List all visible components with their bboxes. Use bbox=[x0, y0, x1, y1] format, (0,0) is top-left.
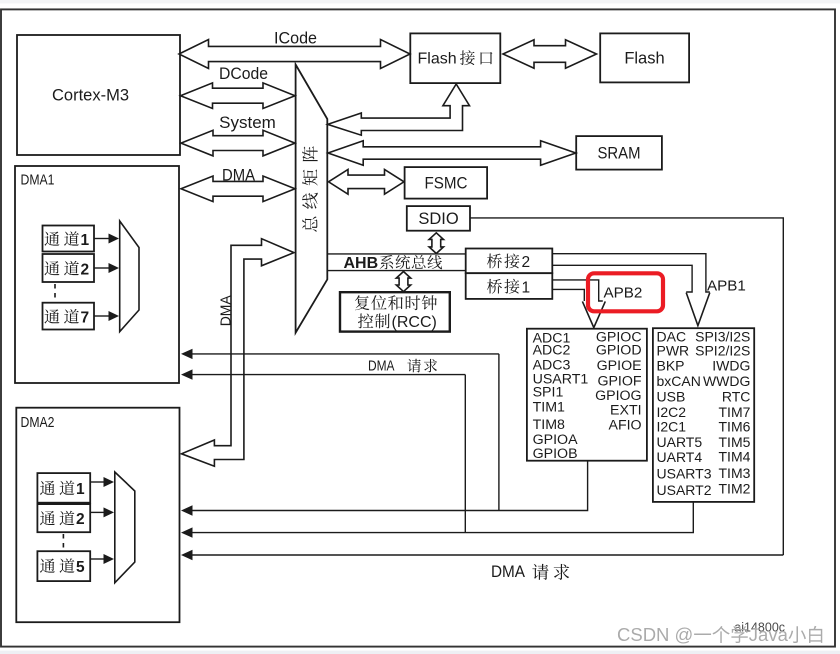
arrow 通道7 to mux (DMA1) bbox=[94, 311, 119, 321]
svg-text:Cortex-M3: Cortex-M3 bbox=[52, 87, 129, 105]
svg-text:DCode: DCode bbox=[219, 64, 268, 83]
svg-text:DMA: DMA bbox=[491, 563, 525, 581]
svg-text:TIM8: TIM8 bbox=[533, 417, 565, 433]
svg-text:DMA: DMA bbox=[218, 295, 235, 326]
DCode bus arrow bbox=[181, 83, 296, 109]
watermark CSDN bbox=[617, 624, 822, 645]
wire SDIO to right rail bbox=[470, 218, 783, 555]
svg-text:GPIOD: GPIOD bbox=[596, 343, 642, 359]
svg-text:FSMC: FSMC bbox=[425, 174, 468, 193]
DMA bus arrow DMA1-matrix bbox=[181, 176, 295, 202]
arrow matrix to FSMC bbox=[329, 169, 405, 194]
svg-text:GPIOE: GPIOE bbox=[597, 358, 642, 374]
svg-text:I2C2: I2C2 bbox=[657, 404, 687, 420]
channel box 通道7 (DMA1) bbox=[43, 303, 95, 330]
svg-text:TIM2: TIM2 bbox=[719, 480, 751, 496]
arrow DMA2 to matrix (vertical elbow, DMA) bbox=[182, 239, 295, 467]
block Flash interface (Flash 接口) bbox=[410, 33, 500, 83]
svg-text:USART2: USART2 bbox=[657, 482, 712, 498]
block APB2 peripherals bbox=[527, 329, 647, 462]
svg-text:DMA: DMA bbox=[368, 358, 395, 375]
arrow Flash interface to Flash bbox=[503, 40, 597, 68]
svg-text:TIM3: TIM3 bbox=[719, 465, 751, 481]
AHB system bus line upper bbox=[327, 253, 465, 255]
arrow matrix to Flash interface (elbow) bbox=[328, 84, 470, 135]
page bottom gray strip bbox=[0, 651, 840, 654]
svg-text:1: 1 bbox=[522, 279, 531, 296]
block Flash bbox=[600, 33, 689, 82]
svg-text:7: 7 bbox=[81, 310, 90, 327]
arrow 通道1 to mux (DMA2) bbox=[90, 477, 114, 487]
svg-text:bxCAN: bxCAN bbox=[657, 373, 701, 389]
channel box 通道1 (DMA1) bbox=[43, 226, 95, 252]
svg-text:BKP: BKP bbox=[657, 358, 685, 374]
svg-text:AFIO: AFIO bbox=[608, 418, 641, 434]
svg-text:DMA: DMA bbox=[222, 167, 255, 185]
svg-text:GPIOG: GPIOG bbox=[595, 388, 642, 404]
wire vertical junction line1 bbox=[498, 354, 500, 511]
wire DMA request to DMA1 line2 bbox=[181, 369, 465, 379]
AHB bus label AHB系统总线 bbox=[344, 255, 443, 272]
block bridge2 桥接2 bbox=[466, 249, 553, 274]
svg-text:GPIOB: GPIOB bbox=[533, 446, 578, 462]
svg-text:Flash: Flash bbox=[418, 51, 457, 68]
svg-text:1: 1 bbox=[76, 481, 85, 498]
DMA1 mux bbox=[120, 221, 139, 332]
svg-text:ADC2: ADC2 bbox=[533, 343, 571, 359]
svg-text:TIM4: TIM4 bbox=[719, 449, 751, 465]
svg-text:Java: Java bbox=[749, 624, 789, 645]
arrow 通道1 to mux (DMA1) bbox=[94, 234, 119, 244]
svg-text:Flash: Flash bbox=[624, 50, 664, 68]
svg-text:PWR: PWR bbox=[657, 342, 690, 358]
arrow 通道2 to mux (DMA2) bbox=[90, 507, 114, 517]
dashed line channels DMA1 bbox=[54, 284, 56, 301]
svg-text:2: 2 bbox=[522, 254, 531, 271]
wire SDIO rail to DMA2 line3 bbox=[181, 550, 783, 560]
wire bridge2 to APB1 (upper) bbox=[552, 254, 710, 292]
svg-text:TIM1: TIM1 bbox=[533, 399, 565, 415]
svg-text:TIM7: TIM7 bbox=[719, 404, 751, 420]
page top gray strip bbox=[0, 0, 840, 3]
arrow SDIO to AHB bus (updown) bbox=[429, 233, 443, 254]
svg-text:ICode: ICode bbox=[274, 29, 317, 48]
svg-text:APB2: APB2 bbox=[604, 285, 643, 302]
wire bridge1 to APB2 (upper) bbox=[552, 280, 603, 301]
DMA vertical label bbox=[218, 295, 235, 326]
channel box 通道5 (DMA2) bbox=[37, 551, 90, 581]
arrow 通道2 to mux (DMA1) bbox=[94, 263, 119, 273]
APB1 arrowhead (open V) bbox=[686, 293, 710, 326]
svg-text:APB1: APB1 bbox=[707, 278, 746, 295]
wire bridge2 to APB1 (lower) bbox=[552, 265, 692, 292]
wire APB2 to DMA2 line1 bbox=[181, 461, 588, 516]
block RCC 复位和时钟控制 bbox=[340, 292, 450, 331]
svg-text:WWDG: WWDG bbox=[703, 373, 750, 389]
arrow AHB bus to RCC (updown) bbox=[396, 272, 410, 292]
svg-text:1: 1 bbox=[81, 232, 90, 249]
svg-text:AHB: AHB bbox=[344, 255, 379, 272]
DMA request label lower bbox=[491, 563, 569, 581]
wire DMA request to DMA1 line1 bbox=[181, 349, 499, 359]
wire bridge1 to APB2 (lower) bbox=[552, 289, 584, 301]
svg-text:SRAM: SRAM bbox=[598, 145, 641, 163]
arrow 通道5 to mux (DMA2) bbox=[90, 554, 114, 564]
block SRAM bbox=[576, 136, 662, 170]
block DMA1 bbox=[15, 166, 179, 383]
block FSMC bbox=[405, 167, 488, 199]
svg-text:SDIO: SDIO bbox=[418, 210, 459, 228]
svg-text:EXTI: EXTI bbox=[610, 403, 642, 419]
svg-text:DMA2: DMA2 bbox=[21, 414, 55, 431]
svg-text:2: 2 bbox=[76, 511, 85, 528]
dashed line channels DMA2 bbox=[62, 534, 64, 550]
block Cortex-M3 bbox=[17, 35, 180, 155]
svg-text:TIM5: TIM5 bbox=[719, 434, 751, 450]
channel box 通道2 (DMA2) bbox=[37, 504, 90, 532]
APB2 arrowhead (open V) bbox=[582, 301, 605, 327]
block APB1 peripherals bbox=[653, 328, 754, 502]
svg-text:CSDN @: CSDN @ bbox=[617, 624, 693, 645]
bus matrix trapezoid bbox=[296, 65, 328, 333]
channel box 通道2 (DMA1) bbox=[43, 254, 95, 282]
DMA2 mux bbox=[115, 472, 135, 583]
svg-text:IWDG: IWDG bbox=[712, 358, 750, 374]
svg-text:2: 2 bbox=[81, 261, 90, 278]
svg-text:UART4: UART4 bbox=[657, 449, 703, 465]
svg-text:SPI1: SPI1 bbox=[533, 384, 564, 400]
svg-text:DMA1: DMA1 bbox=[21, 172, 55, 189]
arrow matrix to SRAM bbox=[328, 141, 576, 165]
svg-text:UART5: UART5 bbox=[657, 434, 703, 450]
wire vertical junction line2 bbox=[464, 375, 466, 533]
DMA request label upper bbox=[368, 358, 437, 375]
block DMA2 bbox=[16, 408, 179, 623]
wire APB1 to DMA2 line2 bbox=[181, 502, 693, 538]
ICode bus arrow bbox=[179, 40, 410, 69]
bus matrix label 总线矩阵 (rotated) bbox=[302, 146, 318, 232]
System bus arrow bbox=[181, 130, 295, 156]
AHB system bus line lower bbox=[327, 270, 465, 272]
svg-text:USART3: USART3 bbox=[657, 465, 712, 481]
svg-text:SPI2/I2S: SPI2/I2S bbox=[695, 342, 750, 358]
block SDIO bbox=[407, 206, 470, 231]
svg-text:5: 5 bbox=[76, 559, 85, 576]
red highlight box around APB2 bbox=[588, 273, 663, 311]
svg-text:RTC: RTC bbox=[722, 389, 751, 405]
block bridge1 桥接1 bbox=[466, 273, 553, 299]
svg-text:I2C1: I2C1 bbox=[657, 419, 687, 435]
svg-text:System: System bbox=[219, 113, 276, 132]
svg-text:USB: USB bbox=[657, 389, 686, 405]
svg-text:(RCC): (RCC) bbox=[392, 314, 437, 331]
channel box 通道1 (DMA2) bbox=[37, 473, 90, 503]
svg-text:TIM6: TIM6 bbox=[719, 419, 751, 435]
